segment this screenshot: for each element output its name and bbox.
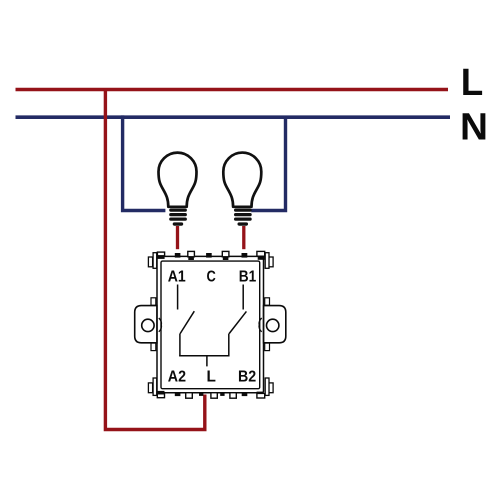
terminal A1 lug (black) (175, 253, 181, 258)
label N (neutral) (460, 107, 488, 149)
top edge clip tabs (white) (157, 251, 264, 260)
lamp LP2 (bulb) (223, 153, 261, 226)
svg-text:L: L (461, 62, 484, 104)
switch SW1 pivot wire (179, 334, 181, 357)
right mounting ear with screw hole (264, 298, 286, 351)
frame corner strips (153, 253, 269, 396)
wire blue branch from N to lamp LP1 (123, 115, 166, 210)
top-right outer corner tab (269, 257, 273, 267)
wire N line (neutral bus) (16, 115, 451, 119)
terminal B2 lug (black) (242, 392, 248, 396)
right expanding claw (259, 318, 262, 332)
lamp LP1 (bulb) (159, 153, 197, 226)
wire red lamp LP2 to terminal B1 (242, 226, 245, 249)
wire L line (live bus) (16, 88, 449, 92)
common bus wire to L (179, 356, 229, 367)
svg-text:B2: B2 (238, 369, 256, 386)
left mounting ear with screw hole (135, 298, 157, 351)
terminal L lug (black) (199, 392, 203, 396)
wire red feed L to switch bottom terminal (105, 88, 204, 430)
top-left outer corner tab (148, 257, 152, 267)
switch SW2 pivot wire (228, 334, 230, 357)
terminal A2 lug (black) (175, 392, 181, 396)
svg-text:L: L (207, 369, 217, 386)
switch SW2 wire from B1 (242, 285, 244, 310)
switch SW1 wire from A1 (177, 285, 179, 310)
switch module outer frame (157, 256, 264, 392)
svg-text:B1: B1 (239, 269, 257, 286)
left expanding claw (159, 318, 162, 332)
svg-text:N: N (460, 107, 488, 149)
wire red lamp LP1 to terminal A1 (176, 226, 179, 249)
bottom-left outer corner tab (148, 383, 152, 393)
switch SW2 blade (229, 311, 246, 333)
switch SW1 blade (180, 311, 194, 333)
wire blue branch from lamp LP2 to N (251, 117, 285, 210)
svg-text:A2: A2 (168, 369, 186, 386)
bottom edge clip tabs (white) (157, 391, 264, 398)
svg-text:C: C (207, 269, 216, 286)
label L (live) (461, 62, 484, 104)
svg-text:A1: A1 (168, 269, 186, 286)
terminal B1 lug (black) (242, 253, 248, 258)
bottom mid lug (black) (220, 392, 224, 396)
bottom-right outer corner tab (269, 383, 273, 393)
terminal C lug (black) (206, 253, 212, 258)
